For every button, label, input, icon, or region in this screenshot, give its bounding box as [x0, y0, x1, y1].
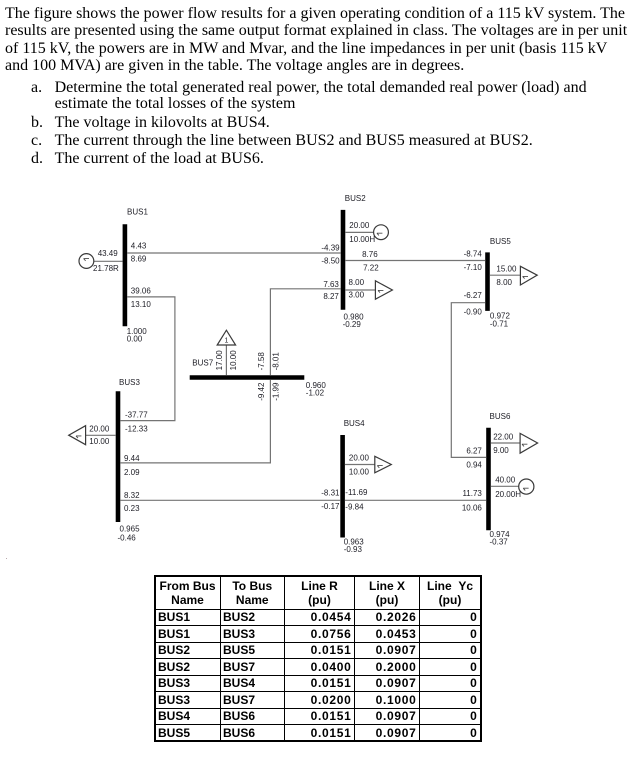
- svg-text:BUS6: BUS6: [490, 412, 511, 421]
- wire BUS3 to BUS4: [120, 499, 340, 501]
- svg-text:20.00: 20.00: [349, 221, 370, 230]
- svg-text:3.00: 3.00: [349, 290, 365, 299]
- wire BUS6 to generator: [491, 485, 519, 487]
- svg-text:-7.10: -7.10: [464, 263, 483, 272]
- svg-text:-11.69: -11.69: [345, 488, 368, 497]
- wire BUS1 to BUS2: [127, 252, 341, 254]
- wire triangle down to BUS7: [225, 345, 227, 375]
- svg-text:21.78R: 21.78R: [93, 264, 119, 273]
- svg-text:-0.93: -0.93: [344, 545, 363, 554]
- bus BUS5 bar: [485, 252, 490, 311]
- svg-text:8.69: 8.69: [131, 255, 147, 264]
- svg-text:7.63: 7.63: [323, 280, 339, 289]
- svg-text:-0.29: -0.29: [343, 320, 362, 329]
- svg-text:-12.33: -12.33: [125, 424, 148, 433]
- bus BUS7 bar: [190, 375, 305, 380]
- svg-text:17.00: 17.00: [215, 350, 224, 371]
- wire BUS3 right then up to BUS7: [120, 380, 270, 463]
- svg-text:-0.90: -0.90: [464, 308, 483, 317]
- svg-text:-4.39: -4.39: [321, 244, 340, 253]
- svg-text:10.06: 10.06: [462, 503, 483, 512]
- wire BUS2 to load: [345, 289, 375, 291]
- load triangle: [520, 266, 537, 285]
- wire BUS5 to load: [490, 274, 521, 276]
- svg-text:20.00: 20.00: [349, 453, 370, 462]
- svg-text:8.76: 8.76: [362, 250, 378, 259]
- paragraph line 2: [5, 23, 627, 39]
- svg-text:40.00: 40.00: [495, 476, 516, 485]
- svg-text:1: 1: [224, 337, 228, 344]
- equivalent triangle left: [69, 426, 86, 445]
- svg-text:0.00: 0.00: [127, 335, 143, 344]
- condenser circle: [374, 225, 389, 240]
- svg-text:8.27: 8.27: [323, 292, 339, 301]
- svg-text:10.00: 10.00: [349, 467, 370, 476]
- svg-text:-8.31: -8.31: [321, 489, 340, 498]
- svg-text:2.09: 2.09: [124, 468, 140, 477]
- svg-text:43.49: 43.49: [98, 249, 119, 258]
- wire BUS6 to load: [491, 442, 520, 444]
- load triangle: [375, 456, 392, 473]
- svg-text:7.22: 7.22: [363, 263, 379, 272]
- bus BUS6 bar: [486, 428, 491, 531]
- wire BUS4 to load: [345, 464, 375, 466]
- paragraph line 3: [5, 41, 607, 57]
- svg-text:BUS3: BUS3: [119, 378, 140, 387]
- svg-text:0.94: 0.94: [466, 460, 482, 469]
- svg-text:0.965: 0.965: [120, 525, 141, 534]
- svg-text:10.00: 10.00: [229, 350, 238, 371]
- paragraph line 1: [5, 6, 625, 22]
- wire BUS2 left then down to BUS7: [270, 289, 340, 376]
- bus BUS4 bar: [340, 435, 345, 538]
- svg-text:4.43: 4.43: [131, 242, 147, 251]
- svg-text:10.00: 10.00: [89, 437, 110, 446]
- svg-text:-0.17: -0.17: [321, 502, 340, 511]
- stray period dot: [6, 558, 8, 560]
- list item b: [31, 115, 43, 131]
- svg-text:BUS4: BUS4: [344, 419, 365, 428]
- wire BUS1 to BUS3 (right, down, left): [120, 297, 175, 421]
- svg-text:11.73: 11.73: [462, 489, 482, 498]
- svg-text:BUS7: BUS7: [192, 358, 213, 367]
- svg-text:-8.50: -8.50: [321, 257, 340, 266]
- svg-text:-0.37: -0.37: [490, 538, 509, 547]
- svg-text:-1.99: -1.99: [271, 382, 280, 401]
- list item a: [31, 80, 42, 96]
- svg-text:-8.01: -8.01: [272, 352, 281, 371]
- svg-text:-6.27: -6.27: [464, 291, 483, 300]
- svg-text:BUS1: BUS1: [127, 208, 148, 217]
- svg-text:20.00H: 20.00H: [495, 490, 521, 499]
- bus BUS1 bar: [123, 224, 128, 326]
- svg-text:9.00: 9.00: [493, 446, 509, 455]
- generator circle: [519, 479, 534, 494]
- svg-text:20.00: 20.00: [89, 424, 110, 433]
- svg-text:-9.42: -9.42: [257, 382, 266, 401]
- svg-text:8.32: 8.32: [124, 491, 140, 500]
- svg-text:BUS2: BUS2: [345, 194, 366, 203]
- svg-text:-1.02: -1.02: [306, 389, 325, 398]
- svg-text:13.10: 13.10: [131, 300, 152, 309]
- wire BUS3 to triangle: [86, 434, 116, 436]
- wire BUS5 left, down, right to BUS6: [451, 303, 486, 458]
- equivalent triangle up: [217, 330, 235, 345]
- wire generator to BUS1: [94, 260, 123, 262]
- list item d: [31, 151, 43, 167]
- wire BUS2 to condenser: [345, 231, 373, 233]
- svg-text:-8.74: -8.74: [464, 249, 483, 258]
- load triangle: [375, 281, 392, 299]
- generator G1 circle: [79, 254, 94, 269]
- bus BUS2 bar: [341, 210, 346, 310]
- svg-text:-9.84: -9.84: [345, 502, 364, 511]
- load triangle: [520, 433, 538, 453]
- svg-text:-37.77: -37.77: [125, 410, 148, 419]
- svg-text:8.00: 8.00: [349, 278, 365, 287]
- wire BUS4 to BUS6: [345, 499, 486, 501]
- svg-text:-7.58: -7.58: [257, 352, 266, 371]
- svg-text:0.23: 0.23: [124, 504, 140, 513]
- svg-text:6.27: 6.27: [466, 446, 482, 455]
- svg-text:-0.71: -0.71: [490, 319, 509, 328]
- wire BUS2 to BUS5: [345, 260, 485, 262]
- svg-text:BUS5: BUS5: [490, 237, 511, 246]
- svg-text:8.00: 8.00: [496, 278, 512, 287]
- svg-text:10.00H: 10.00H: [349, 235, 375, 244]
- list item c: [31, 133, 42, 149]
- paragraph line 4: [5, 58, 464, 74]
- svg-text:15.00: 15.00: [496, 264, 517, 273]
- svg-text:9.44: 9.44: [124, 454, 140, 463]
- svg-text:-0.46: -0.46: [118, 534, 137, 543]
- bus BUS3 bar: [116, 391, 121, 522]
- svg-text:22.00: 22.00: [493, 433, 514, 442]
- svg-text:39.06: 39.06: [131, 286, 152, 295]
